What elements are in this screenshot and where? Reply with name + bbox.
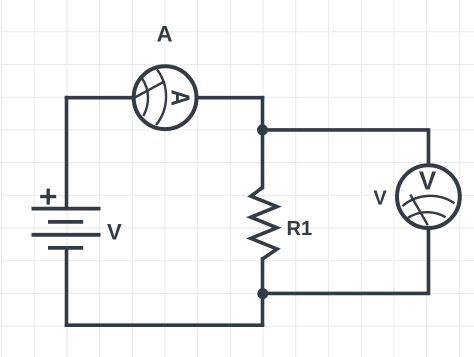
wire: left vertical from battery - terminal to bottom rail (65, 248, 69, 325)
voltmeter V (397, 165, 460, 228)
wire: top branch from node A to voltmeter top (263, 130, 429, 165)
node: bottom junction (257, 288, 268, 299)
label V (voltmeter) (373, 188, 387, 210)
svg-text:V: V (107, 220, 122, 245)
label R1 (287, 218, 313, 240)
node: top junction (257, 124, 268, 135)
svg-text:A: A (157, 22, 173, 47)
wire: middle branch riser bottom rail to bottom node (261, 293, 265, 325)
battery V: plate long 2 (32, 233, 101, 237)
wire: left vertical from top rail to battery + terminal (65, 98, 69, 209)
battery V: plate short 1 (48, 220, 83, 224)
battery V: plate short 2 (48, 246, 83, 250)
battery V: plate long top (32, 207, 101, 211)
label A (ammeter) (157, 22, 173, 47)
svg-text:V: V (419, 166, 437, 196)
ammeter A (134, 66, 197, 129)
wire: middle vertical from resistor R1 bottom to bottom node (261, 259, 265, 293)
wire: bottom branch from voltmeter bottom to node B (263, 228, 429, 293)
resistor R1 (251, 188, 277, 260)
wire: bottom rail from battery to middle branch (67, 323, 263, 327)
svg-text:A: A (165, 89, 195, 106)
svg-text:R1: R1 (287, 218, 313, 240)
battery + polarity mark (40, 189, 56, 205)
label V (battery) (107, 220, 122, 245)
wire: top rail from battery to middle branch (67, 96, 263, 100)
svg-text:V: V (373, 188, 387, 210)
wire: middle vertical from top rail to resistor R1 top (261, 98, 265, 188)
